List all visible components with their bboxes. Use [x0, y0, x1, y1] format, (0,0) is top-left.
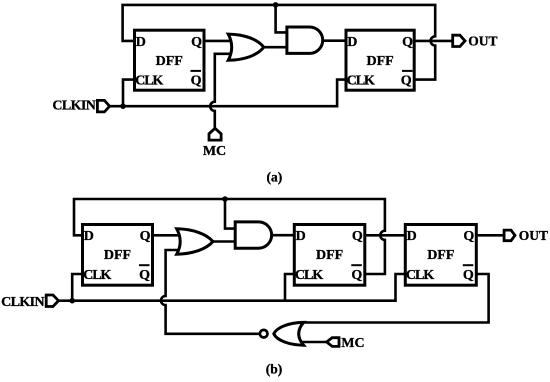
svg-text:CLK: CLK	[83, 268, 111, 283]
wire: CLKIN riser to CLK of U1a	[123, 80, 135, 107]
flip-flop U1b (DFF)	[83, 225, 153, 286]
wire: OR output to AND bottom input (b)	[212, 240, 237, 243]
svg-text:DFF: DFF	[104, 248, 131, 263]
wire: Q2 to OUT connector (a)	[414, 40, 453, 43]
and-gate G2b	[235, 222, 271, 248]
svg-text:MC: MC	[203, 144, 226, 159]
or-gate G1a	[228, 34, 264, 60]
svg-text:Q: Q	[191, 74, 202, 89]
svg-text:Q: Q	[139, 268, 150, 283]
node: junction dot on top feedback wire (b)	[222, 196, 228, 202]
flip-flop U2a (DFF)	[346, 30, 414, 90]
node: CLKIN junction dot (a)	[120, 103, 126, 109]
svg-text:D: D	[84, 229, 94, 244]
wire: MC to NOR bottom input (b)	[302, 341, 327, 344]
wire: Q1 to OR gate top input (a)	[204, 40, 231, 43]
svg-text:CLKIN: CLKIN	[1, 295, 44, 310]
flip-flop U3b (DFF)	[405, 225, 476, 286]
svg-text:DFF: DFF	[427, 248, 454, 263]
wire: Q2 to D of U3b	[365, 234, 406, 237]
svg-text:MC: MC	[341, 336, 364, 351]
svg-text:Q: Q	[463, 229, 474, 244]
svg-text:CLK: CLK	[295, 268, 323, 283]
svg-text:D: D	[136, 35, 146, 50]
nor-gate G3b output bubble	[260, 330, 268, 338]
overline Qbar U1b	[139, 264, 150, 266]
svg-text:DFF: DFF	[366, 54, 393, 69]
wire: MC riser to OR gate bottom input, hop over CLKIN line (a)	[210, 54, 231, 129]
flip-flop U2b (DFF)	[294, 225, 365, 286]
wire: Q2bar feedback from top wire to D of U1a, hop over Q2 output line	[123, 5, 436, 80]
wire: feedback drop to AND gate top input (a)	[276, 5, 288, 33]
wire: NOR output riser to OR bottom input, hop over CLKIN line (b)	[161, 250, 260, 334]
connector MC (b)	[327, 338, 339, 347]
svg-text:D: D	[296, 229, 306, 244]
connector OUT (b)	[504, 230, 515, 241]
connector MC (a)	[209, 128, 221, 140]
overline Qbar U2b	[351, 264, 362, 266]
svg-text:DFF: DFF	[156, 54, 183, 69]
node: junction dot on top feedback wire (a)	[273, 2, 279, 8]
flip-flop U1a (DFF)	[135, 30, 205, 90]
overline Qbar U2a	[402, 70, 413, 72]
svg-text:Q: Q	[140, 229, 151, 244]
svg-text:CLK: CLK	[135, 74, 163, 89]
wire: AND output to D of U2b	[270, 234, 294, 237]
wire: CLK riser of U2b down to CLKIN line	[285, 274, 294, 301]
svg-text:D: D	[347, 35, 357, 50]
connector CLKIN (b)	[46, 295, 58, 307]
wire: Q3bar loop down and left to NOR top input (b)	[302, 274, 489, 323]
svg-text:Q: Q	[463, 268, 474, 283]
overline Qbar U1a	[191, 70, 202, 72]
overline Qbar U3b	[463, 264, 474, 266]
svg-text:(a): (a)	[267, 169, 283, 184]
svg-text:Q: Q	[401, 74, 412, 89]
svg-text:OUT: OUT	[519, 228, 548, 243]
wire: CLKIN line rising to CLK of U3b	[59, 274, 406, 301]
connector OUT (a)	[453, 35, 465, 46]
connector CLKIN (a)	[97, 100, 109, 112]
wire: Q2bar feedback from top wire to D of U1b, hop over Q2-D3 line	[74, 199, 385, 274]
svg-text:CLKIN: CLKIN	[52, 99, 95, 114]
and-gate G2a	[287, 27, 323, 53]
svg-text:CLK: CLK	[406, 268, 434, 283]
svg-text:(b): (b)	[266, 362, 283, 377]
svg-text:D: D	[407, 229, 417, 244]
wire: Q1 to OR gate top input (b)	[153, 234, 181, 237]
svg-text:CLK: CLK	[347, 74, 375, 89]
wire: feedback drop to AND gate top input (b)	[225, 199, 237, 229]
wire: OR output to AND bottom input (a)	[262, 46, 288, 49]
svg-text:Q: Q	[402, 35, 413, 50]
svg-text:OUT: OUT	[468, 33, 497, 48]
or-gate G1b	[177, 229, 213, 254]
wire: AND output to D of U2a	[323, 39, 347, 42]
svg-text:Q: Q	[191, 35, 202, 50]
wire: CLKIN line rising to CLK of U2a	[110, 80, 346, 107]
wire: Q3 to OUT connector (b)	[476, 234, 504, 237]
node: CLKIN junction dot (b)	[69, 298, 75, 304]
svg-text:Q: Q	[351, 268, 362, 283]
svg-text:Q: Q	[352, 229, 363, 244]
nor-gate G3b body (points left)	[274, 322, 304, 345]
wire: CLKIN riser to CLK of U1b	[72, 274, 82, 301]
svg-text:DFF: DFF	[316, 248, 343, 263]
